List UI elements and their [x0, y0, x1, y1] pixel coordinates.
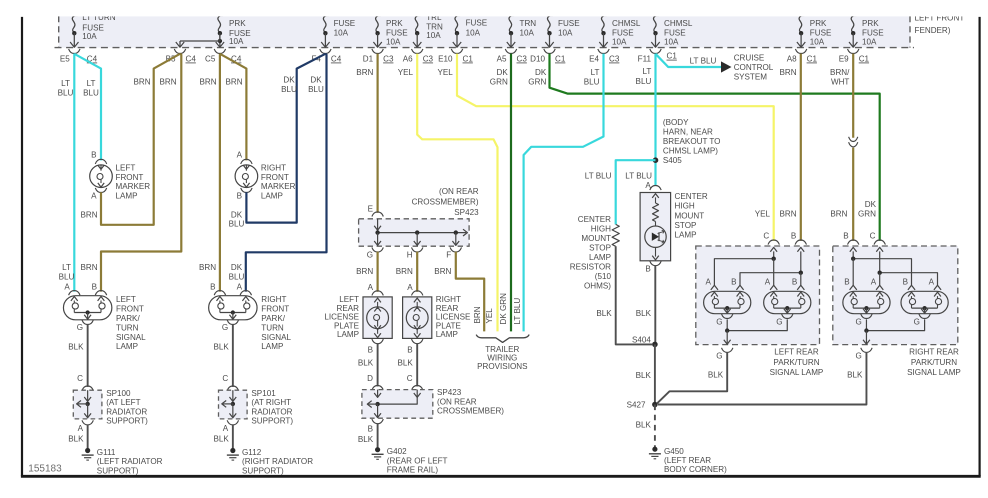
svg-text:10A: 10A: [386, 37, 401, 46]
svg-text:BRN: BRN: [396, 267, 413, 276]
svg-text:LEFT REAR: LEFT REAR: [774, 347, 819, 356]
wire BRN D1 to SP423 E: [377, 54, 379, 213]
terminal cups RF park/turn B A: [214, 291, 225, 296]
terminal cup SP101 A: [227, 420, 238, 425]
lamp left front park/turn signal: [63, 296, 111, 320]
svg-text:STOP: STOP: [589, 243, 611, 252]
svg-text:A: A: [368, 283, 374, 292]
svg-text:B: B: [843, 232, 848, 241]
svg-text:(ON REAR: (ON REAR: [439, 187, 479, 196]
svg-text:YEL: YEL: [485, 308, 494, 324]
svg-text:LT BLU: LT BLU: [585, 171, 612, 180]
svg-text:LT: LT: [591, 68, 600, 77]
svg-text:S405: S405: [663, 156, 682, 165]
svg-text:MARKER: MARKER: [116, 182, 151, 191]
svg-text:BRN: BRN: [780, 209, 797, 218]
svg-text:TURN: TURN: [261, 323, 284, 332]
svg-text:G: G: [716, 352, 722, 361]
svg-text:TRN: TRN: [520, 19, 537, 28]
svg-text:CENTER: CENTER: [578, 215, 611, 224]
wire LT BLU F11 to S405 and CHMSL lamp: [654, 54, 656, 186]
svg-text:B: B: [844, 278, 849, 287]
svg-text:G: G: [367, 251, 373, 260]
fuse PRK FUSE 10A (A8): [799, 16, 804, 33]
wire BRN SP423 H to RR license A: [416, 252, 418, 292]
svg-text:A: A: [705, 278, 711, 287]
svg-text:BRN: BRN: [225, 78, 242, 87]
connector F4 C4: [320, 49, 331, 54]
terminal cup LR license B: [372, 339, 383, 344]
svg-text:S427: S427: [627, 401, 646, 410]
svg-text:A6: A6: [403, 55, 413, 64]
svg-text:CROSSMEMBER): CROSSMEMBER): [412, 197, 479, 206]
svg-text:(AT RIGHT: (AT RIGHT: [251, 398, 291, 407]
wire BRN SP423 F to trailer: [456, 252, 484, 332]
svg-text:B: B: [368, 424, 373, 433]
svg-text:10A: 10A: [229, 37, 244, 46]
svg-text:F: F: [446, 251, 451, 260]
svg-text:G: G: [856, 317, 862, 326]
fuse FUSE 10A (E10): [455, 16, 460, 33]
svg-text:LT BLU: LT BLU: [625, 171, 652, 180]
svg-text:LAMP: LAMP: [436, 330, 458, 339]
svg-text:SIGNAL LAMP: SIGNAL LAMP: [907, 368, 961, 377]
svg-text:HARN, NEAR: HARN, NEAR: [663, 127, 713, 136]
svg-text:MARKER: MARKER: [261, 182, 296, 191]
svg-text:SP100: SP100: [106, 389, 131, 398]
svg-text:LICENSE: LICENSE: [436, 313, 471, 322]
wire BRN C5 branch to RF marker A: [220, 54, 247, 161]
svg-text:LEFT: LEFT: [339, 295, 359, 304]
svg-text:PLATE: PLATE: [436, 321, 462, 330]
svg-text:BODY CORNER): BODY CORNER): [664, 465, 727, 474]
LR lamp C feed: [770, 247, 777, 251]
svg-text:CROSSMEMBER): CROSSMEMBER): [437, 407, 504, 416]
svg-text:LAMP: LAMP: [116, 192, 138, 201]
terminal cup SP100 A: [82, 420, 93, 425]
wire DK BLU F4 right branch to RF park/turn A: [246, 54, 327, 292]
terminal cup SP423 E: [372, 212, 383, 217]
svg-text:G: G: [776, 317, 782, 326]
svg-text:BRN: BRN: [199, 263, 216, 272]
wire BRN A8 to LR lamp B: [800, 54, 802, 241]
svg-text:LAMP: LAMP: [116, 342, 138, 351]
svg-text:C: C: [870, 232, 876, 241]
svg-text:BLU: BLU: [58, 88, 74, 97]
svg-text:BRN: BRN: [80, 263, 97, 272]
svg-text:STOP: STOP: [675, 221, 697, 230]
svg-text:YEL: YEL: [437, 68, 453, 77]
svg-text:CONTROL: CONTROL: [734, 63, 774, 72]
connector C5 C4: [214, 49, 225, 54]
svg-text:BLK: BLK: [847, 370, 863, 379]
svg-text:LEFT: LEFT: [116, 163, 136, 172]
svg-text:B: B: [903, 278, 908, 287]
svg-text:SIGNAL LAMP: SIGNAL LAMP: [770, 368, 824, 377]
svg-text:(REAR OF LEFT: (REAR OF LEFT: [387, 456, 448, 465]
wire BLK CHMSL B to S404: [654, 265, 656, 344]
wire BLK RF park/turn G to SP101: [232, 324, 234, 387]
svg-text:SUPPORT): SUPPORT): [251, 416, 293, 425]
wire BLK RR G to S427: [658, 352, 866, 405]
svg-text:10A: 10A: [558, 28, 573, 37]
svg-text:BRN: BRN: [434, 267, 451, 276]
svg-text:FRAME RAIL): FRAME RAIL): [387, 466, 439, 475]
splice SP423 box (on rear crossmember): [359, 219, 470, 246]
svg-text:RIGHT: RIGHT: [436, 295, 461, 304]
wire DK BLU F4 to RF marker B: [246, 54, 325, 223]
svg-text:B: B: [92, 283, 97, 292]
svg-text:BRN: BRN: [830, 209, 847, 218]
svg-text:DK: DK: [310, 75, 322, 84]
fuse TRL TRN 10A (A6): [415, 16, 420, 33]
wire BRN B5 to LF marker A: [101, 54, 180, 225]
terminal cup LF marker B: [95, 159, 106, 164]
svg-text:CHMSL LAMP): CHMSL LAMP): [663, 146, 718, 155]
svg-text:C5: C5: [205, 55, 216, 64]
svg-text:C4: C4: [186, 55, 197, 64]
svg-text:BLK: BLK: [636, 420, 652, 429]
svg-text:BLU: BLU: [229, 220, 245, 229]
svg-text:10A: 10A: [334, 28, 349, 37]
wire BLK resistor to S404: [616, 246, 652, 344]
terminal cup LR G out: [722, 348, 733, 353]
connector B5 C4: [174, 49, 185, 54]
svg-text:PARK/TURN: PARK/TURN: [773, 358, 819, 367]
border right: [978, 17, 980, 476]
terminal cups SP423 G H F: [372, 247, 383, 252]
terminal cup SP100 C: [82, 386, 93, 391]
svg-text:A8: A8: [787, 55, 797, 64]
svg-text:DK: DK: [865, 200, 877, 209]
terminal cups LF park/turn A B: [69, 291, 80, 296]
svg-text:LAMP: LAMP: [589, 253, 611, 262]
connector E5 C4: [69, 49, 80, 54]
svg-text:E10: E10: [438, 55, 453, 64]
svg-text:BLK: BLK: [708, 370, 724, 379]
svg-text:10A: 10A: [82, 32, 97, 41]
fuse PRK FUSE 10A (B5/C5): [218, 16, 223, 33]
terminal cup CHMSL B: [650, 261, 661, 266]
svg-text:BRN: BRN: [780, 68, 797, 77]
svg-text:CRUISE: CRUISE: [734, 53, 765, 62]
svg-text:D10: D10: [530, 55, 545, 64]
CHMSL lamp internals: [652, 194, 659, 198]
svg-text:G: G: [222, 323, 228, 332]
svg-text:BRN: BRN: [80, 210, 97, 219]
terminal cup RR G out: [861, 348, 872, 353]
svg-text:DK GRN: DK GRN: [499, 293, 508, 325]
svg-text:F11: F11: [638, 55, 652, 64]
wire BLK SP101 to G112: [232, 424, 234, 448]
connector D1 C3: [372, 49, 383, 54]
svg-text:FUSE: FUSE: [810, 28, 832, 37]
svg-text:RADIATOR: RADIATOR: [106, 407, 147, 416]
ground G111: [85, 448, 90, 453]
svg-text:B: B: [237, 191, 242, 200]
wire LT BLU E5 branch to LF marker B: [74, 54, 101, 161]
terminal cup RR B: [848, 240, 859, 245]
terminal cup SP101 C: [227, 386, 238, 391]
svg-text:BLK: BLK: [213, 343, 229, 352]
svg-text:C3: C3: [383, 55, 394, 64]
svg-text:155183: 155183: [28, 463, 62, 474]
svg-text:A: A: [929, 278, 935, 287]
arrow to cruise control system: [721, 61, 732, 72]
terminal cup LR B: [795, 240, 806, 245]
svg-text:BLK: BLK: [68, 434, 84, 443]
svg-text:BRN: BRN: [356, 267, 373, 276]
connector D10 C1: [544, 49, 555, 54]
svg-text:C: C: [77, 374, 83, 383]
svg-text:OHMS): OHMS): [584, 281, 611, 290]
trailer brace: [476, 335, 529, 343]
connector F11 C1: [650, 49, 661, 54]
splice node S427: [652, 402, 658, 408]
wire BLK RR license B to SP423-2 C: [416, 343, 418, 386]
svg-text:RADIATOR: RADIATOR: [251, 407, 292, 416]
svg-text:BLU: BLU: [229, 272, 245, 281]
svg-text:B: B: [645, 264, 650, 273]
svg-text:D: D: [367, 374, 373, 383]
svg-text:H: H: [407, 251, 413, 260]
svg-text:LICENSE: LICENSE: [324, 313, 359, 322]
svg-text:BLK: BLK: [68, 343, 84, 352]
svg-text:BRN: BRN: [473, 306, 482, 323]
svg-text:PRK: PRK: [862, 19, 879, 28]
svg-text:RIGHT: RIGHT: [261, 295, 286, 304]
ground G112: [230, 448, 235, 453]
wire BLK SP100 to G111: [87, 424, 89, 448]
terminal cup CHMSL A: [650, 186, 661, 191]
svg-text:10A: 10A: [612, 37, 627, 46]
svg-text:BRN/: BRN/: [830, 68, 850, 77]
fuse TRN 10A (A5): [509, 16, 514, 33]
wire BRN C5 to RF park/turn B: [219, 54, 221, 292]
svg-text:BREAKOUT TO: BREAKOUT TO: [663, 137, 721, 146]
svg-text:HIGH: HIGH: [591, 224, 611, 233]
LR lamp B feed: [797, 247, 804, 251]
wire LT BLU E4 to trailer: [524, 54, 604, 332]
connector E9 C1: [848, 49, 859, 54]
wire break symbol E9: [849, 137, 858, 142]
lamp right front park/turn signal: [209, 296, 257, 320]
connector A5 C3: [505, 49, 516, 54]
svg-text:LT: LT: [62, 263, 71, 272]
svg-text:GRN: GRN: [858, 210, 876, 219]
wire LT BLU S405 to CHMSL resistor: [616, 160, 656, 224]
svg-text:C3: C3: [423, 55, 434, 64]
svg-text:A: A: [871, 278, 877, 287]
svg-text:BRN: BRN: [133, 78, 150, 87]
RR G junction: [865, 319, 867, 330]
svg-text:A5: A5: [497, 55, 507, 64]
svg-text:BLK: BLK: [636, 371, 652, 380]
terminal cup RF marker A: [241, 159, 252, 164]
svg-text:PLATE: PLATE: [334, 321, 360, 330]
RR lamp C feed: [876, 247, 883, 251]
svg-text:FRONT: FRONT: [261, 173, 289, 182]
wire BLK SP423-2 to G402: [377, 423, 379, 447]
svg-text:C: C: [222, 374, 228, 383]
RR lamp B feed: [850, 247, 857, 251]
svg-text:A: A: [64, 283, 70, 292]
svg-text:E5: E5: [60, 55, 70, 64]
svg-text:C1: C1: [463, 55, 474, 64]
svg-text:G: G: [716, 317, 722, 326]
fuse FUSE 10A (D10): [548, 16, 553, 33]
svg-text:A: A: [237, 283, 243, 292]
svg-text:SP101: SP101: [251, 389, 276, 398]
border bottom: [21, 475, 981, 478]
svg-text:GRN: GRN: [528, 77, 546, 86]
splice node S405: [653, 157, 659, 163]
svg-text:A: A: [765, 278, 771, 287]
fuse PRK FUSE 10A (E9): [851, 16, 856, 33]
underhood fuse block box (dashed, cropped at top): [59, 10, 910, 48]
svg-text:SYSTEM: SYSTEM: [734, 73, 768, 82]
lamp left rear license plate: [363, 297, 392, 339]
connector E4 C3: [598, 49, 609, 54]
svg-text:E4: E4: [589, 55, 599, 64]
splice SP101 internals: [232, 390, 234, 401]
splice SP101 box: [219, 390, 248, 419]
svg-text:G: G: [914, 317, 920, 326]
lamp right front marker: [235, 165, 258, 188]
svg-text:B: B: [210, 283, 215, 292]
terminal cups SP423-2 D C: [372, 386, 383, 391]
border left: [21, 17, 23, 476]
wire BRN/WHT E9 to RR lamp B upper: [852, 54, 854, 138]
svg-text:BLU: BLU: [308, 85, 324, 94]
svg-text:PRK: PRK: [229, 19, 246, 28]
wire BLK S427 to G450 (dashed): [654, 405, 656, 448]
svg-text:C: C: [407, 374, 413, 383]
svg-text:SUPPORT): SUPPORT): [242, 466, 284, 475]
svg-text:PRK: PRK: [810, 19, 827, 28]
svg-text:C4: C4: [331, 55, 342, 64]
svg-text:SP423: SP423: [437, 388, 462, 397]
white crop band top: [0, 0, 988, 16]
svg-text:REAR: REAR: [436, 304, 459, 313]
svg-text:(AT LEFT: (AT LEFT: [106, 398, 140, 407]
wire LT BLU E5 to LF park/turn A: [73, 54, 75, 292]
fuse F1 LT TURN FUSE 10A (E5): [72, 16, 77, 33]
svg-text:MOUNT: MOUNT: [581, 234, 611, 243]
fuse FUSE 10A (F4): [323, 16, 328, 33]
lamp right rear license plate: [403, 297, 432, 339]
splice SP100 internals: [87, 390, 89, 401]
svg-text:YEL: YEL: [755, 209, 771, 218]
svg-text:GRN: GRN: [490, 77, 508, 86]
RR bulb 2 dual filament: [901, 291, 948, 313]
ground G402: [375, 447, 380, 452]
svg-text:SUPPORT): SUPPORT): [106, 416, 148, 425]
svg-text:BLU: BLU: [59, 272, 75, 281]
svg-text:G: G: [856, 352, 862, 361]
svg-text:A: A: [223, 424, 229, 433]
svg-text:D1: D1: [363, 55, 374, 64]
svg-text:BRN: BRN: [159, 78, 176, 87]
svg-text:HIGH: HIGH: [675, 202, 695, 211]
connector A6 C3: [412, 49, 423, 54]
splice SP423-2 box: [362, 390, 433, 419]
terminal cups RR bulbs G: [861, 314, 872, 319]
wire BLK LF park/turn G to SP100: [87, 324, 89, 387]
svg-text:(ON REAR: (ON REAR: [437, 397, 477, 406]
svg-text:10A: 10A: [520, 28, 535, 37]
svg-text:LT: LT: [61, 79, 70, 88]
svg-text:FUSE: FUSE: [558, 19, 580, 28]
svg-text:PARK/TURN: PARK/TURN: [911, 358, 957, 367]
ground G450: [652, 447, 657, 452]
svg-text:FUSE: FUSE: [862, 28, 884, 37]
svg-text:10A: 10A: [810, 37, 825, 46]
svg-text:LT BLU: LT BLU: [513, 298, 522, 325]
svg-text:DK: DK: [231, 263, 243, 272]
svg-text:FRONT: FRONT: [261, 305, 289, 314]
connector E10 C1: [451, 49, 462, 54]
svg-text:RESISTOR: RESISTOR: [570, 262, 611, 271]
svg-text:PARK/: PARK/: [261, 314, 285, 323]
svg-text:LT BLU: LT BLU: [690, 56, 717, 65]
svg-text:BLK: BLK: [358, 435, 374, 444]
svg-text:C3: C3: [609, 55, 620, 64]
svg-text:B: B: [91, 150, 96, 159]
terminal cup RR license A: [412, 291, 423, 296]
terminal cup SP423-2 B: [372, 419, 383, 424]
fuse CHMSL FUSE 10A (F11): [654, 16, 659, 33]
lamp left front marker: [90, 165, 113, 188]
resistor center high mount stop lamp resistor: [612, 224, 619, 246]
wire BLK S404 to S427: [654, 344, 656, 404]
lamp center high mount stop (box): [640, 193, 671, 261]
wire BLK LR license B to SP423-2 D: [377, 343, 379, 386]
svg-text:10A: 10A: [862, 37, 877, 46]
svg-text:LEFT: LEFT: [116, 295, 136, 304]
svg-text:C1: C1: [555, 55, 566, 64]
wire YEL A6 to trailer: [417, 54, 497, 332]
wire BLK LR G to S427: [657, 352, 727, 404]
svg-text:SP423: SP423: [454, 208, 479, 217]
wire BRN SP423 G to LR license A: [377, 252, 379, 292]
svg-text:BLU: BLU: [636, 77, 652, 86]
terminal cup RR license B: [412, 339, 423, 344]
RR bulb 1 dual filament: [843, 291, 890, 313]
svg-text:A: A: [407, 283, 413, 292]
svg-text:S404: S404: [632, 335, 651, 344]
svg-text:FUSE: FUSE: [664, 28, 686, 37]
svg-text:(LEFT REAR: (LEFT REAR: [664, 456, 711, 465]
svg-text:(BODY: (BODY: [663, 118, 689, 127]
svg-text:BLK: BLK: [358, 358, 374, 367]
terminal cup RF park/turn G: [227, 320, 238, 325]
terminal cups LR bulbs G: [722, 314, 733, 319]
svg-text:YEL: YEL: [398, 68, 414, 77]
svg-text:LAMP: LAMP: [261, 192, 283, 201]
fuse PRK FUSE 10A (D1): [376, 16, 381, 33]
wire LT BLU F11 branch to cruise control: [656, 54, 722, 67]
svg-text:LT: LT: [642, 67, 651, 76]
svg-text:BLK: BLK: [397, 358, 413, 367]
svg-text:RIGHT REAR: RIGHT REAR: [909, 347, 959, 356]
svg-text:SUPPORT): SUPPORT): [97, 466, 139, 475]
svg-text:G111: G111: [97, 448, 116, 457]
svg-text:G112: G112: [242, 448, 262, 457]
lamp left rear park/turn box (dashed): [696, 246, 820, 345]
terminal cup RR C: [874, 240, 885, 245]
svg-text:A: A: [91, 191, 97, 200]
